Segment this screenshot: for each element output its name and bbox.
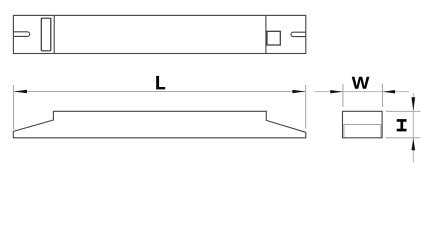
H arrow bottom: [411, 138, 415, 150]
side view profile: [13, 111, 306, 138]
right mounting slot: [291, 32, 306, 36]
W extension line right: [381, 84, 383, 107]
H label (rotated): [397, 119, 407, 131]
W arrow right: [383, 90, 395, 93]
L dimension line: [14, 91, 306, 93]
L arrow left: [14, 90, 27, 94]
W arrow left: [330, 90, 342, 93]
W extension line left: [342, 84, 344, 107]
H extension line top: [386, 110, 421, 112]
H extension line bottom: [386, 137, 421, 139]
end view outline: [343, 111, 383, 138]
L label: [156, 76, 165, 90]
W label: [352, 77, 370, 89]
left end-cap divider: [53, 15, 55, 53]
left mounting slot: [13, 32, 29, 37]
W dimension line: [315, 91, 410, 93]
terminal block: [41, 18, 51, 51]
L extension line left: [13, 85, 15, 130]
square knockout: [267, 31, 280, 45]
L arrow right: [292, 90, 305, 94]
right end-cap divider: [265, 15, 267, 53]
top view body outline: [13, 15, 305, 53]
H dimension line: [412, 93, 414, 163]
L extension line right: [305, 85, 307, 129]
H arrow top: [411, 97, 415, 111]
end view base flange: [344, 125, 381, 138]
